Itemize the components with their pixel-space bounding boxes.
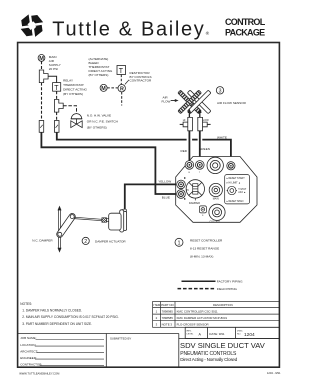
svg-text:2: 2: [84, 239, 87, 245]
svg-text:DAMPER ACTUATOR: DAMPER ACTUATOR: [95, 239, 126, 243]
svg-text:JOB NAME:: JOB NAME:: [20, 336, 36, 340]
reset controller U3 octagon body: [176, 157, 257, 223]
svg-text:ADJ ▲: ADJ ▲: [238, 191, 246, 194]
legend factory piping sample: [182, 280, 216, 282]
air flow sensor S1 crossed tubes: [178, 90, 211, 114]
factory piping: actuator to YELLOW port: [125, 184, 177, 209]
svg-text:RED: RED: [181, 149, 188, 153]
field piping wire M1 to tee1: [41, 61, 43, 70]
air flow arrow: [162, 96, 171, 104]
svg-text:RESET CONTROLLER: RESET CONTROLLER: [190, 238, 223, 242]
field piping M to restrictor: [107, 87, 118, 89]
drawing frame: [18, 43, 280, 368]
svg-text:CSC-3011: CSC-3011: [210, 221, 222, 224]
svg-text:PACKAGE: PACKAGE: [225, 27, 265, 37]
plain tube NW-SE: [187, 90, 211, 114]
top gauge boss: [207, 157, 223, 173]
rod clevis: [102, 218, 107, 222]
svg-text:FLO-CROSS® SENSOR: FLO-CROSS® SENSOR: [177, 322, 209, 326]
union fitting U1: [39, 121, 44, 133]
svg-text:Tuttle & Bailey: Tuttle & Bailey: [52, 18, 204, 40]
HI tee fitting: [183, 117, 192, 130]
svg-text:LOCATION:: LOCATION:: [20, 343, 36, 347]
svg-text:3. PART NUMBER DEPENDENT ON UN: 3. PART NUMBER DEPENDENT ON UNIT SIZE.: [22, 322, 92, 326]
field piping wire tee2 branch to valve: [63, 106, 76, 114]
svg-text:DIRECT ACTING: DIRECT ACTING: [63, 88, 87, 92]
port RED barb: [185, 161, 194, 170]
svg-text:▸ RESET SPAN: ▸ RESET SPAN: [227, 200, 244, 203]
svg-text:T: T: [119, 68, 124, 75]
svg-text:LEVEL: LEVEL: [187, 333, 195, 335]
svg-text:N.C. DAMPER: N.C. DAMPER: [32, 239, 53, 243]
svg-text:M: M: [39, 56, 44, 62]
svg-text:(8-MIN, 13-MAX): (8-MIN, 13-MAX): [190, 254, 213, 258]
svg-text:(BY OTHERS): (BY OTHERS): [63, 92, 83, 96]
svg-text:T: T: [54, 85, 59, 92]
svg-text:Direct Acting - Normally Close: Direct Acting - Normally Closed: [180, 357, 237, 362]
field piping wire tee1 down to union1: [41, 83, 43, 121]
svg-text:AIR FLOW SENSOR: AIR FLOW SENSOR: [217, 101, 247, 105]
svg-text:▸ RESET START: ▸ RESET START: [227, 177, 246, 180]
svg-text:SUBMITTED BY: SUBMITTED BY: [110, 336, 131, 340]
svg-text:DATE: 9/91: DATE: 9/91: [209, 332, 225, 336]
svg-text:A: A: [199, 332, 202, 336]
port BLUE barb: [177, 190, 186, 199]
field piping wire T1 to tee2: [56, 91, 58, 99]
bottom gauge boss: [209, 204, 225, 220]
job info block: [20, 336, 42, 366]
circled item number 1: [175, 238, 183, 246]
svg-text:7898985: 7898985: [162, 309, 174, 313]
svg-text:1. DAMPER FAILS NORMALLY CLOSE: 1. DAMPER FAILS NORMALLY CLOSED.: [22, 309, 82, 313]
damper adjustment dial: [186, 180, 204, 201]
svg-text:1204: 1204: [244, 332, 255, 338]
svg-text:DESCRIPTION: DESCRIPTION: [213, 303, 233, 307]
restrictor R1: [118, 85, 125, 92]
svg-text:DAMPER: DAMPER: [189, 201, 200, 205]
svg-text:ITEM: ITEM: [153, 303, 160, 307]
circled item number 3: [216, 87, 223, 94]
field piping wire tee2 down to union2: [56, 112, 58, 120]
actuator rod: [74, 217, 102, 221]
svg-text:KMC CONTROLLER CSC-3011: KMC CONTROLLER CSC-3011: [177, 309, 218, 313]
svg-text:WHITE: WHITE: [217, 135, 227, 139]
factory piping: union2 to WHITE port: [57, 132, 187, 139]
N.O. hot water valve V1: [71, 114, 81, 119]
svg-text:THERMOSTAT: THERMOSTAT: [63, 83, 84, 87]
hatched tube SW-NE: [178, 90, 202, 114]
svg-text:3: 3: [156, 322, 158, 326]
sensor drop tubes with up arrows: [188, 111, 190, 118]
tee fitting T-pipe 1: [39, 70, 48, 83]
svg-text:3: 3: [219, 88, 222, 94]
svg-text:WWW.TUTTLEANDBAILEY.COM: WWW.TUTTLEANDBAILEY.COM: [19, 372, 60, 376]
panel dial: [227, 186, 237, 194]
bottom small port: [199, 206, 206, 213]
svg-text:CONTROL: CONTROL: [225, 17, 266, 27]
svg-text:NO.: NO.: [237, 333, 241, 335]
svg-text:MAIN: MAIN: [213, 197, 219, 200]
hatched tube NW-SE: [178, 90, 202, 114]
svg-text:NOTES:: NOTES:: [20, 302, 32, 306]
svg-text:(BY OTHERS): (BY OTHERS): [87, 125, 107, 129]
field piping T2 to restrictor: [120, 75, 122, 85]
svg-text:FLOW: FLOW: [162, 99, 171, 103]
main air supply label: [39, 55, 60, 71]
factory piping GREEN tube: [199, 131, 201, 161]
svg-text:SDV SINGLE DUCT VAV: SDV SINGLE DUCT VAV: [180, 341, 266, 350]
svg-text:PART NO: PART NO: [161, 303, 174, 307]
field piping stub below restrictor: [121, 92, 123, 106]
N.C. damper blade: [58, 206, 62, 253]
plain tube SW-NE: [187, 90, 211, 114]
svg-text:GREEN: GREEN: [199, 147, 210, 151]
union fitting U2: [55, 121, 60, 133]
svg-text:8-13 RESET RANGE: 8-13 RESET RANGE: [190, 246, 219, 250]
svg-text:▸ HI LIMIT ▲: ▸ HI LIMIT ▲: [227, 182, 241, 185]
legend field piping sample: [178, 288, 216, 290]
LOW tee fitting: [198, 117, 207, 130]
svg-text:NOTE 3: NOTE 3: [162, 322, 173, 326]
svg-text:DWG.: DWG.: [237, 331, 243, 333]
svg-text:7898585: 7898585: [162, 316, 174, 320]
tee fitting T-pipe 2: [54, 100, 63, 113]
svg-text:OR N.C. P.E. SWITCH: OR N.C. P.E. SWITCH: [87, 120, 118, 124]
svg-text:2. MAIN AIR SUPPLY CONSUMPTION: 2. MAIN AIR SUPPLY CONSUMPTION IS 0.017 …: [22, 315, 119, 319]
port WHITE barb: [227, 162, 235, 170]
svg-text:ENGINEER:: ENGINEER:: [20, 356, 37, 360]
restrictor note and leader: [130, 71, 153, 82]
factory piping RED tube: [188, 131, 190, 161]
svg-text:(BY OTHERS): (BY OTHERS): [89, 73, 109, 77]
svg-text:N.O. H.W. VALVE: N.O. H.W. VALVE: [87, 114, 111, 118]
wire tee1 branch to relay thermostat: [48, 76, 57, 82]
alternate bleed thermostat T2: [89, 57, 113, 77]
svg-text:FACTORY PIPING: FACTORY PIPING: [217, 280, 243, 284]
svg-text:FIELD PIPING: FIELD PIPING: [217, 287, 238, 291]
svg-text:YELLOW: YELLOW: [158, 180, 171, 184]
main gauge center: [209, 183, 222, 196]
svg-text:KMC DAMPER ACTUATOR MCP-8031: KMC DAMPER ACTUATOR MCP-8031: [177, 316, 228, 320]
svg-text:CONTRACTOR:: CONTRACTOR:: [20, 362, 42, 366]
svg-text:1: 1: [156, 309, 158, 313]
svg-text:1: 1: [178, 241, 181, 247]
svg-text:ARCHITECT:: ARCHITECT:: [20, 349, 38, 353]
svg-text:®: ®: [206, 30, 210, 36]
svg-text:CONTRACTOR: CONTRACTOR: [130, 79, 153, 83]
port M of alternate branch: [100, 84, 107, 91]
damper crank arm: [55, 212, 76, 238]
relay thermostat T1: [53, 83, 61, 92]
company logo pinwheel: [19, 12, 45, 38]
svg-text:R: R: [120, 86, 124, 92]
svg-text:1204 - 9/91: 1204 - 9/91: [267, 371, 281, 375]
svg-text:REV.: REV.: [187, 331, 192, 333]
svg-text:LOW: LOW: [203, 118, 209, 122]
svg-text:M: M: [101, 86, 106, 92]
svg-text:2: 2: [156, 316, 158, 320]
factory piping: union1 to BLUE port: [41, 132, 176, 194]
circled item number 2: [82, 237, 89, 244]
adjustment panel: [225, 175, 250, 204]
port YELLOW barb: [177, 180, 186, 189]
svg-text:HI: HI: [183, 118, 186, 122]
svg-text:20 PSI: 20 PSI: [49, 67, 58, 71]
port GREEN barb: [196, 161, 205, 170]
svg-text:BLUE: BLUE: [162, 195, 170, 199]
main air supply M1: [38, 55, 45, 62]
port id dots: [184, 177, 185, 178]
svg-text:RELAY: RELAY: [63, 79, 73, 83]
damper actuator A1: [109, 209, 127, 232]
